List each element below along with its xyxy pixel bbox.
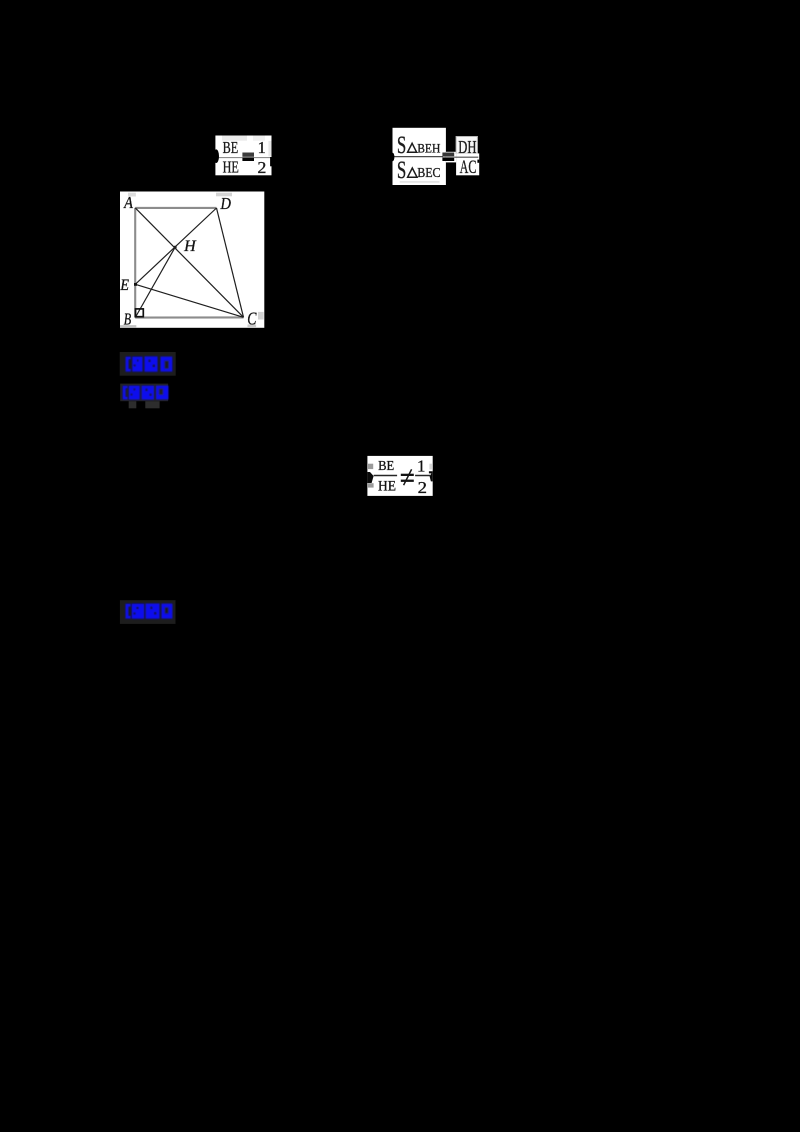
svg-text:BEH: BEH bbox=[417, 142, 440, 156]
right angle marker at B bbox=[136, 309, 144, 317]
geometry figure panel bbox=[120, 192, 265, 329]
F2 right-edge character fragment bbox=[477, 160, 479, 163]
F1 right-edge character fragment bbox=[270, 157, 272, 166]
svg-text:DH: DH bbox=[458, 137, 476, 157]
H1 blue char 2 bbox=[144, 356, 157, 371]
F1 equals sign bold bbox=[242, 153, 254, 157]
F3 fraction bar right bbox=[415, 475, 430, 477]
H2 gray blob right below bbox=[145, 401, 159, 408]
F3 left-edge character fragment bbox=[367, 472, 373, 483]
H3 blue bracket right bbox=[161, 604, 172, 619]
H3 blue char 1 bbox=[132, 604, 145, 619]
svg-text:2: 2 bbox=[257, 158, 266, 177]
F3 gray square left top bbox=[368, 464, 373, 469]
svg-text:HE: HE bbox=[223, 157, 239, 176]
highlight block H1 bbox=[120, 352, 176, 376]
H3 blue char 2 bbox=[146, 604, 160, 619]
F2 AC box bbox=[456, 153, 479, 175]
diagonal AC bbox=[135, 208, 243, 317]
gray artifact above D bbox=[216, 193, 232, 197]
point dot E bbox=[134, 283, 137, 286]
H2 dark backing box bbox=[120, 384, 168, 402]
formula F2 panel (S_BEH / S_BEC = DH/AC) bbox=[391, 128, 479, 185]
svg-text:S: S bbox=[397, 157, 406, 184]
H2 blue bracket left bbox=[123, 386, 128, 400]
H3 blue bracket left bbox=[126, 604, 131, 619]
svg-text:1: 1 bbox=[417, 457, 425, 476]
F2 main white box bbox=[393, 128, 446, 185]
svg-text:HE: HE bbox=[378, 479, 396, 495]
F3 not-equal bars bbox=[401, 474, 414, 476]
segment BH bbox=[135, 247, 175, 318]
F2 equals sign bold bbox=[442, 153, 454, 157]
svg-text:H: H bbox=[183, 238, 197, 255]
F1 fraction bar full width bbox=[215, 157, 271, 159]
highlight block H2 bbox=[120, 384, 168, 409]
side BC bbox=[135, 316, 243, 318]
svg-text:C: C bbox=[247, 309, 256, 329]
svg-text:AC: AC bbox=[460, 157, 477, 178]
F2 fraction bar bbox=[393, 156, 444, 158]
segment ED through H bbox=[135, 208, 216, 284]
svg-text:BE: BE bbox=[378, 459, 394, 474]
gray artifact below C label bbox=[248, 324, 257, 327]
side AD bbox=[135, 207, 216, 209]
svg-text:A: A bbox=[123, 193, 133, 212]
F3 right-edge character fragment bbox=[429, 471, 433, 481]
F2 triangle top bbox=[408, 143, 417, 152]
svg-text:2: 2 bbox=[418, 478, 427, 497]
H1 dark backing box bbox=[120, 352, 176, 376]
F2 bottom gray band bbox=[400, 181, 440, 183]
svg-text:E: E bbox=[120, 277, 130, 294]
gray artifact right of C bbox=[258, 312, 264, 320]
F3 not-equal slash bbox=[404, 469, 412, 485]
F1 top gray band bbox=[222, 136, 247, 141]
H2 blue char 1 bbox=[129, 386, 140, 400]
F3 gray square left bottom bbox=[368, 483, 374, 487]
side DC bbox=[217, 208, 244, 317]
H2 blue bracket right bbox=[156, 386, 168, 400]
formula F1 panel (BE/HE = 1/2) bbox=[213, 136, 271, 178]
gray artifact above A bbox=[128, 193, 136, 197]
svg-text:B: B bbox=[124, 310, 131, 329]
H1 blue bracket left bbox=[126, 357, 131, 372]
H1 blue char 1 bbox=[132, 357, 142, 372]
H3 dark backing box bbox=[120, 600, 176, 624]
H1 blue bracket right bbox=[160, 357, 172, 372]
segment EC bbox=[135, 284, 243, 317]
F3 right-edge gray band bbox=[429, 464, 432, 470]
svg-text:BEC: BEC bbox=[417, 165, 441, 180]
side AB bbox=[134, 208, 136, 318]
F2 left-edge character fragment bbox=[391, 153, 395, 161]
formula F3 panel (BE/HE != 1/2) bbox=[367, 456, 432, 497]
F1 right-edge gray band bbox=[268, 141, 271, 156]
svg-text:1: 1 bbox=[258, 138, 266, 157]
highlight block H3 bbox=[120, 600, 176, 624]
svg-text:D: D bbox=[220, 194, 231, 213]
F2 DH box with light border bbox=[456, 137, 477, 154]
F3 fraction bar left bbox=[374, 475, 397, 477]
point dot H bbox=[174, 246, 177, 249]
H2 blue char 2 bbox=[142, 386, 154, 400]
F2 bridge strip under equals bbox=[446, 152, 456, 163]
gray artifact below B bbox=[120, 325, 136, 328]
F1 left-edge character fragment bbox=[213, 149, 219, 163]
F2 triangle bottom bbox=[408, 168, 417, 177]
svg-text:BE: BE bbox=[223, 138, 239, 157]
F2 right fraction bar bbox=[454, 156, 478, 158]
H2 gray blob left below bbox=[129, 401, 137, 408]
svg-text:S: S bbox=[397, 132, 406, 159]
